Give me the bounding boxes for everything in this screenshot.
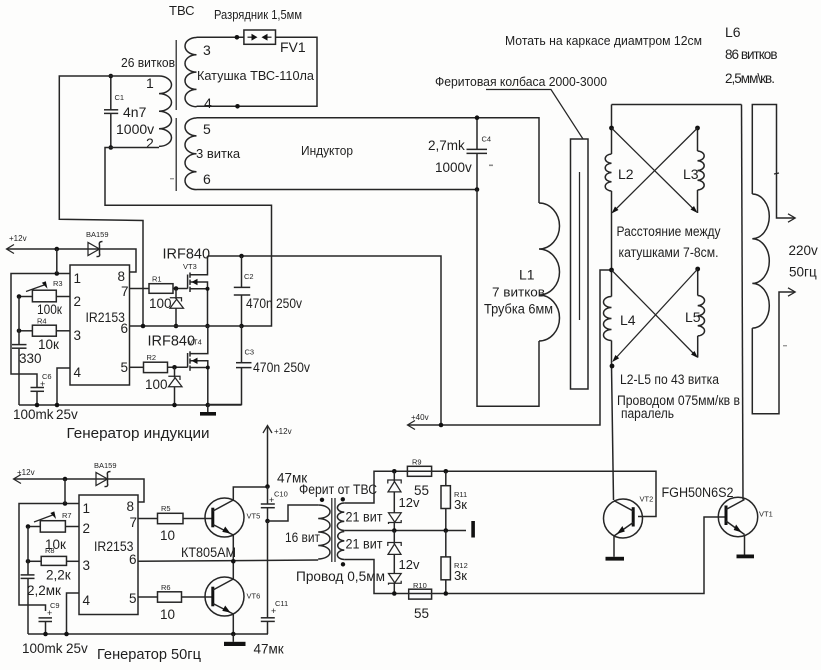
svg-text:VT5: VT5: [247, 512, 261, 521]
svg-text:Индуктор: Индуктор: [301, 143, 353, 158]
wire rail to diode and pin 8: [100, 249, 136, 272]
resistor R4: [32, 317, 59, 353]
node on loop bottom: [235, 104, 240, 109]
svg-text:25v: 25v: [56, 407, 78, 422]
zener VD1 12v: [388, 471, 401, 513]
wire secondary top to rectifier rail: [344, 471, 656, 516]
svg-text:4n7: 4n7: [123, 104, 147, 120]
svg-text:3: 3: [74, 328, 82, 343]
capacitor C6: [13, 372, 78, 422]
ground at VT2: [606, 557, 625, 561]
capacitor C11: [254, 599, 289, 657]
svg-text:10: 10: [160, 607, 175, 622]
MOSFET VT3 IRF840: [163, 247, 211, 327]
+12v arrow top-left: [7, 234, 101, 254]
wire pin3 to R8: [67, 560, 80, 562]
ground symbol generator 1: [200, 405, 216, 416]
svg-text:IR2153: IR2153: [94, 539, 134, 554]
svg-text:+: +: [271, 606, 276, 616]
svg-text:4: 4: [204, 95, 212, 111]
svg-text:Ферит от ТВС: Ферит от ТВС: [299, 482, 377, 497]
svg-text:R3: R3: [53, 279, 63, 288]
resistor R1: [149, 275, 173, 312]
zener VD3 12v: [388, 531, 401, 574]
svg-text:100: 100: [145, 377, 168, 392]
svg-text:1: 1: [74, 271, 82, 286]
wire pin5 to R2 to gate: [130, 366, 144, 368]
zener VD4: [389, 574, 402, 594]
svg-text:12v: 12v: [399, 495, 420, 510]
svg-text:100к: 100к: [37, 302, 62, 317]
svg-text:4: 4: [74, 365, 82, 380]
svg-text:470n 250v: 470n 250v: [253, 360, 310, 375]
wire pin4 down: [67, 593, 80, 634]
svg-text:C10: C10: [274, 490, 288, 499]
potentiometer R3: [26, 279, 63, 317]
wire pin2 to R7: [65, 526, 79, 528]
svg-text:FGH50N6S2: FGH50N6S2: [662, 485, 734, 500]
svg-text:21 вит: 21 вит: [346, 537, 383, 552]
svg-text:3к: 3к: [454, 497, 467, 512]
wire C10/C11 column crossing: [267, 521, 269, 618]
node L4 bottom: [610, 364, 615, 369]
svg-text:Провод 0,5мм: Провод 0,5мм: [296, 569, 385, 584]
winding 3-4 (Katushka TVS-110la): [185, 38, 212, 112]
svg-text:330: 330: [19, 351, 42, 366]
svg-text:L1: L1: [519, 267, 535, 283]
ferrite bar (kolbasa): [571, 139, 589, 389]
wire pin5 to R6 to VT6 base: [138, 596, 158, 598]
svg-text:100mk: 100mk: [22, 641, 63, 656]
wire pin6 midpoint rail: [130, 325, 242, 327]
node L3 top: [695, 126, 700, 131]
wire: box top: [612, 104, 742, 106]
svg-text:5: 5: [203, 121, 211, 137]
svg-text:C4: C4: [482, 135, 492, 144]
svg-text:6: 6: [121, 321, 129, 336]
svg-text:L4: L4: [620, 312, 636, 328]
capacitor C10: [261, 487, 288, 522]
capacitor 330: [12, 297, 42, 406]
capacitor C1: [104, 76, 154, 148]
svg-text:2,5мм\кв.: 2,5мм\кв.: [725, 71, 775, 86]
svg-text:2: 2: [74, 294, 82, 309]
resistor R6: [158, 583, 182, 622]
wire VT3 drain rail to +40 drop: [208, 256, 442, 425]
svg-text:C1: C1: [115, 93, 125, 102]
svg-text:C2: C2: [244, 272, 254, 281]
coil L4: [604, 297, 636, 341]
transistor VT5 KT805AM: [205, 487, 267, 561]
svg-text:C11: C11: [275, 599, 288, 608]
zener at VT3 gate: [170, 289, 184, 327]
svg-text:паралель: паралель: [621, 406, 674, 421]
IC U1 IR2153: [70, 265, 130, 385]
wire pin2 to R3: [56, 296, 70, 298]
svg-text:16 вит: 16 вит: [285, 530, 320, 545]
svg-text:25v: 25v: [66, 641, 88, 656]
wire pin4 down: [57, 368, 70, 405]
svg-text:ТВС: ТВС: [169, 3, 195, 18]
svg-text:VT1: VT1: [759, 510, 773, 519]
svg-text:6: 6: [129, 552, 137, 567]
transistor VT1: [718, 497, 772, 554]
+40v arrow and rail: [408, 270, 612, 430]
transformer T2: secondary 21+21 vit: [337, 503, 382, 560]
node L4 top: [609, 268, 614, 273]
node: C1 top junction: [109, 74, 114, 79]
node +12v/pin1: [55, 247, 60, 252]
svg-text:R6: R6: [161, 583, 171, 592]
svg-text:10к: 10к: [38, 337, 59, 352]
cross wires L4-L5: [612, 269, 699, 362]
resistor R2: [144, 353, 168, 392]
coil L2: [605, 154, 634, 191]
svg-text:Феритовая колбаса 2000-3000: Феритовая колбаса 2000-3000: [435, 74, 607, 89]
svg-text:100: 100: [149, 296, 172, 311]
capacitor 2,2mk: [21, 527, 61, 635]
svg-text:катушками 7-8см.: катушками 7-8см.: [619, 245, 719, 260]
svg-text:Мотать на каркасе диамтром 12с: Мотать на каркасе диамтром 12см: [505, 33, 702, 48]
spark gap FV1: [244, 30, 276, 44]
svg-text:47мк: 47мк: [254, 642, 284, 657]
coil L3: [683, 128, 704, 213]
svg-text:470n 250v: 470n 250v: [246, 296, 302, 311]
svg-text:R4: R4: [37, 317, 47, 326]
svg-text:1: 1: [83, 501, 91, 516]
ground rail of generator 1: [19, 404, 242, 406]
resistor R11: [441, 486, 467, 512]
node: C1 bottom junction: [109, 145, 114, 150]
svg-text:L6: L6: [725, 24, 741, 40]
svg-text:3: 3: [203, 42, 211, 58]
MOSFET VT4 IRF840: [148, 326, 210, 405]
svg-text:5: 5: [121, 360, 129, 375]
wire: left edge with L2 and L4: [611, 105, 613, 155]
ground rail generator 2: [28, 633, 268, 635]
capacitor C4: [428, 118, 491, 190]
svg-text:IRF840: IRF840: [163, 247, 211, 263]
resistor R10: [409, 581, 432, 621]
svg-text:FV1: FV1: [280, 39, 306, 55]
svg-text:L3: L3: [683, 166, 699, 182]
svg-text:КТ805АМ: КТ805АМ: [181, 545, 236, 560]
svg-text:2: 2: [146, 135, 154, 151]
svg-text:100mk: 100mk: [13, 407, 54, 422]
svg-text:Генератор индукции: Генератор индукции: [67, 426, 210, 442]
node on FV1 wire left: [235, 35, 240, 40]
winding L 1-2 (drive winding): [146, 75, 172, 151]
svg-text:7 витков: 7 витков: [492, 285, 545, 300]
wire pin7 to R5 to VT5 base: [138, 518, 158, 520]
svg-text:L2-L5 по 43 витка: L2-L5 по 43 витка: [620, 372, 719, 387]
svg-text:3: 3: [83, 558, 91, 573]
svg-text:12v: 12v: [399, 557, 420, 572]
IC U2 IR2153: [79, 495, 138, 615]
node C4 bottom: [475, 187, 480, 192]
wire: winding2 bottom to C2/C3 midpoint: [105, 148, 272, 327]
svg-text:26 витков: 26 витков: [121, 55, 175, 70]
ground at VT1: [737, 555, 755, 559]
svg-text:6: 6: [203, 171, 211, 187]
svg-text:21 вит: 21 вит: [346, 510, 383, 525]
resistor R5: [158, 504, 184, 543]
svg-text:8: 8: [127, 499, 135, 514]
wire pin1: [19, 504, 79, 612]
svg-text:R2: R2: [147, 353, 157, 362]
wire pin6 rail to transformer: [138, 560, 318, 561]
ground bar at centre tap: [471, 521, 475, 538]
node: primary polarity dot: [320, 498, 324, 502]
svg-text:1000v: 1000v: [435, 160, 472, 175]
svg-text:R5: R5: [161, 504, 171, 513]
resistor R8: [41, 546, 71, 583]
svg-text:1: 1: [146, 75, 154, 91]
winding 5-6 (inductor primary): [185, 118, 211, 190]
svg-text:Генератор 50гц: Генератор 50гц: [97, 647, 201, 663]
svg-text:86 витков: 86 витков: [725, 47, 778, 62]
svg-text:5: 5: [129, 591, 137, 606]
svg-text:10: 10: [160, 528, 175, 543]
svg-text:BA159: BA159: [94, 461, 117, 470]
svg-text:R7: R7: [62, 511, 72, 520]
wire: winding1 top to C1 and far-left drop: [59, 76, 159, 326]
transistor VT2: [604, 495, 654, 557]
wire: right edge down to VT1: [742, 105, 744, 500]
svg-text:8: 8: [118, 269, 126, 284]
svg-text:Разрядник 1,5мм: Разрядник 1,5мм: [214, 7, 302, 22]
wire: spark-gap loop: [197, 36, 244, 38]
transformer T2 core: [331, 498, 333, 562]
svg-text:2,2мк: 2,2мк: [27, 583, 61, 598]
work coil L1 loop: [477, 190, 560, 407]
svg-text:VT3: VT3: [183, 262, 197, 271]
svg-text:2: 2: [83, 521, 91, 536]
+12v arrow at C10: [263, 426, 292, 487]
resistor R12: [441, 557, 468, 583]
wire pin7 to R1 to gate: [130, 288, 150, 290]
svg-text:L2: L2: [618, 166, 634, 182]
wire pin3 to R4: [56, 330, 70, 332]
svg-text:L5: L5: [685, 309, 701, 325]
svg-text:VT2: VT2: [640, 495, 654, 504]
speck marks: [489, 165, 493, 167]
svg-text:50гц: 50гц: [789, 265, 817, 280]
svg-text:+12v: +12v: [9, 234, 27, 243]
svg-text:+: +: [47, 608, 52, 618]
capacitor C2: [234, 256, 302, 326]
svg-text:IR2153: IR2153: [86, 310, 126, 325]
zener at VT4 gate: [168, 367, 182, 405]
resistor R9: [407, 458, 431, 499]
svg-text:R8: R8: [45, 546, 55, 555]
svg-text:+12v: +12v: [274, 427, 292, 436]
transformer T2: primary 16 vit: [285, 505, 330, 559]
transistor VT6: [205, 561, 260, 634]
zener VD2: [389, 513, 402, 531]
wire secondary bottom to lower rail: [344, 517, 724, 594]
svg-text:2,7mk: 2,7mk: [428, 138, 465, 153]
node L5 top: [695, 267, 700, 272]
svg-text:7: 7: [121, 284, 129, 299]
coil L6 with output arrows: [752, 105, 795, 414]
wire: inductor loop bottom: [197, 189, 478, 191]
svg-text:Трубка 6мм: Трубка 6мм: [484, 302, 553, 317]
svg-text:BA159: BA159: [86, 230, 109, 239]
svg-text:2,2к: 2,2к: [46, 568, 71, 583]
svg-text:C3: C3: [245, 348, 255, 357]
svg-text:220v: 220v: [789, 243, 819, 258]
svg-text:VT6: VT6: [247, 592, 261, 601]
potentiometer R7: [34, 511, 72, 552]
capacitor C9: [22, 601, 88, 656]
svg-text:VT4: VT4: [188, 338, 202, 347]
svg-text:7: 7: [130, 515, 138, 530]
wire pin1: [11, 274, 70, 388]
node C4 top: [475, 115, 480, 120]
+12v arrow bottom-left: [14, 468, 109, 484]
wire secondary centre tap: [344, 530, 466, 532]
svg-text:3к: 3к: [454, 568, 467, 583]
node: secondary top polarity dot: [341, 497, 345, 501]
svg-text:3 витка: 3 витка: [196, 146, 241, 161]
svg-text:Расстояние между: Расстояние между: [617, 224, 721, 239]
diode BA159 (bottom): [94, 461, 117, 487]
coil L5: [685, 269, 705, 358]
transformer core TVS: [175, 40, 177, 110]
ground symbol generator 2: [224, 634, 246, 646]
wire: inductor loop top: [197, 118, 540, 203]
capacitor C3: [208, 326, 310, 405]
svg-text:R1: R1: [152, 275, 162, 284]
wire C10 bottom to primary top: [268, 505, 319, 521]
diode BA159 (top): [86, 230, 109, 257]
node L2 top: [609, 126, 614, 131]
wire rail to pin8: [108, 479, 144, 502]
svg-text:4: 4: [83, 593, 91, 608]
node: secondary bottom polarity dot: [341, 562, 345, 566]
svg-text:55: 55: [414, 606, 429, 621]
cross wires L2-L3: [612, 128, 698, 214]
svg-text:R9: R9: [412, 458, 422, 467]
svg-text:Катушка ТВС-110ла: Катушка ТВС-110ла: [197, 68, 315, 83]
